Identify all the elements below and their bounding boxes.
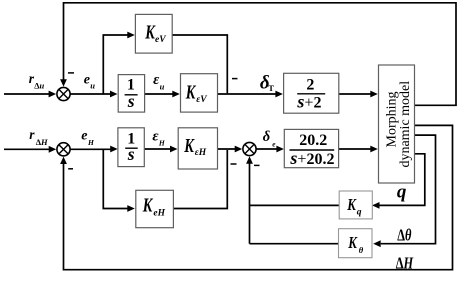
svg-text:K: K xyxy=(183,134,195,157)
svg-text:e: e xyxy=(81,129,87,144)
svg-text:u: u xyxy=(90,81,95,91)
svg-text:K: K xyxy=(185,80,197,103)
svg-text:q: q xyxy=(397,182,407,203)
svg-text:ΔH: ΔH xyxy=(396,255,414,273)
svg-text:εH: εH xyxy=(195,148,207,158)
svg-text:K: K xyxy=(346,197,356,215)
svg-text:Δu: Δu xyxy=(34,81,44,91)
svg-text:δ: δ xyxy=(263,129,270,145)
svg-text:K: K xyxy=(347,235,357,253)
svg-text:H: H xyxy=(87,138,95,147)
svg-text:20.2: 20.2 xyxy=(299,132,327,149)
svg-text:s+20.2: s+20.2 xyxy=(289,148,334,168)
svg-text:s+2: s+2 xyxy=(296,91,321,111)
svg-text:dynamic model: dynamic model xyxy=(398,81,413,168)
svg-text:eV: eV xyxy=(155,35,166,45)
svg-text:ΔH: ΔH xyxy=(36,137,48,147)
svg-text:εV: εV xyxy=(196,95,207,105)
svg-text:eH: eH xyxy=(153,208,165,218)
svg-text:s: s xyxy=(127,144,135,164)
svg-text:q: q xyxy=(357,207,362,217)
svg-text:2: 2 xyxy=(306,77,314,94)
svg-text:s: s xyxy=(127,91,135,111)
svg-text:Δθ: Δθ xyxy=(397,227,412,245)
svg-text:u: u xyxy=(160,82,165,92)
svg-text:T: T xyxy=(268,83,274,93)
svg-text:K: K xyxy=(142,193,154,216)
svg-text:r: r xyxy=(29,127,35,142)
svg-text:H: H xyxy=(158,138,166,147)
svg-text:θ: θ xyxy=(359,245,364,255)
svg-text:e: e xyxy=(84,72,90,87)
